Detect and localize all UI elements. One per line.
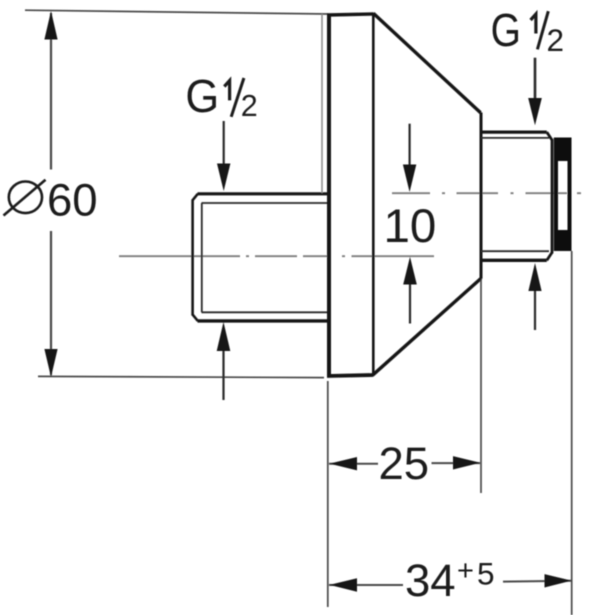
arrowhead D60 down xyxy=(44,349,57,377)
label G1/2 left: fraction 1 xyxy=(224,81,229,101)
arrowhead G1/2 left down xyxy=(217,164,230,192)
dimension line 25 xyxy=(329,462,480,465)
label G1/2 right: fraction slash xyxy=(537,11,548,49)
arrowhead 25 right xyxy=(453,456,480,469)
arrowhead 34 left xyxy=(330,578,358,591)
flange left edge xyxy=(327,14,331,378)
label G1/2 right: fraction 1 xyxy=(531,14,536,33)
arrow G1/2 left shaft xyxy=(223,121,225,168)
svg-text:10: 10 xyxy=(384,200,437,253)
left pipe thread outer top edge xyxy=(198,192,328,195)
extension line 25/34 left vertical xyxy=(327,381,329,607)
svg-text:G: G xyxy=(185,70,219,123)
left pipe thread root top line xyxy=(202,202,328,204)
svg-text:25: 25 xyxy=(379,438,430,489)
dimension 10 upper arrow shaft xyxy=(409,124,411,167)
svg-text:5: 5 xyxy=(477,556,495,592)
centerline left axis xyxy=(119,255,434,257)
arrow G1/2 right lower shaft xyxy=(534,288,536,330)
right thread outer bottom edge xyxy=(481,259,547,262)
cone top slant edge xyxy=(373,13,480,113)
arrowhead G1/2 right down xyxy=(528,98,542,125)
extension line top (D60 upper) xyxy=(25,10,328,14)
svg-text:2: 2 xyxy=(547,22,565,58)
extension line 25 right vertical xyxy=(480,280,482,493)
seal washer (black ring section) xyxy=(554,138,572,252)
left pipe thread outer bottom edge xyxy=(198,319,328,322)
left pipe bottom chamfer xyxy=(193,315,198,321)
left pipe thread root bottom line xyxy=(202,311,328,313)
right thread bottom chamfer xyxy=(547,253,552,261)
svg-text:60: 60 xyxy=(47,175,98,226)
extension line bottom (D60 lower) xyxy=(38,376,324,377)
arrowhead 10 up xyxy=(403,257,417,285)
label D60 diameter symbol xyxy=(4,180,46,216)
arrow G1/2 left lower shaft xyxy=(222,348,224,400)
cone base vertical edge xyxy=(480,113,483,279)
right thread top chamfer xyxy=(547,132,552,140)
right thread end face xyxy=(551,139,554,254)
flange bottom edge xyxy=(327,375,373,376)
flange right edge xyxy=(372,14,375,376)
right thread outer top edge xyxy=(481,131,547,134)
arrowhead G1/2 left up xyxy=(217,322,231,351)
dimension line D60 vertical xyxy=(50,13,52,375)
arrowhead 34 right xyxy=(545,574,572,587)
right thread root top line xyxy=(481,137,549,139)
right thread root bottom line xyxy=(481,250,549,252)
arrow G1/2 right shaft xyxy=(534,58,537,101)
svg-text:2: 2 xyxy=(241,89,258,123)
dimension 10 lower arrow shaft xyxy=(409,281,411,324)
cone bottom slant edge xyxy=(373,278,481,375)
svg-text:34: 34 xyxy=(405,555,456,606)
centerline right axis xyxy=(392,192,581,194)
extension line 34 right vertical xyxy=(571,251,573,615)
flange top edge xyxy=(327,14,374,15)
svg-text:G: G xyxy=(491,5,521,57)
left pipe thread root end vertical xyxy=(201,203,203,312)
svg-text:+: + xyxy=(457,555,474,587)
arrowhead G1/2 right up xyxy=(528,263,541,291)
arrowhead 25 left xyxy=(330,457,358,470)
left pipe end face xyxy=(191,200,194,316)
flange hidden rim line xyxy=(321,14,323,193)
arrowhead 10 down xyxy=(403,165,416,193)
label G1/2 left: fraction slash xyxy=(231,78,244,117)
dimension line 34 xyxy=(329,581,572,585)
left pipe top chamfer xyxy=(193,194,198,200)
arrowhead D60 up xyxy=(44,11,57,40)
